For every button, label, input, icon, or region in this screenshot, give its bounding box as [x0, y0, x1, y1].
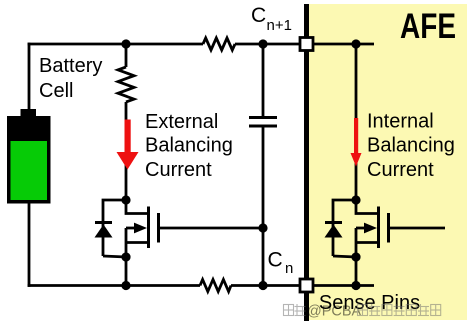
node: AFE top rail / internal branch	[351, 39, 360, 48]
wire: internal branch upper	[355, 44, 358, 200]
svg-text:n: n	[285, 260, 293, 277]
internal balancing current red arrow	[354, 118, 358, 154]
wire: internal branch to bottom rail	[355, 257, 358, 286]
node: gate wire / capacitor branch	[258, 223, 267, 232]
wire: external branch to bottom rail	[125, 257, 128, 286]
svg-text:C: C	[268, 249, 283, 272]
resistor (top, between node Cn+1 wire)	[203, 38, 235, 50]
wire: top rail right segment	[235, 43, 374, 46]
AFE yellow region	[309, 4, 467, 320]
transistor Q2 (internal balancing FET)	[356, 200, 378, 214]
transistor Q1 (external balancing FET)	[126, 200, 148, 214]
pin Cn+1 (square terminal)	[300, 38, 313, 51]
svg-text:C: C	[251, 4, 266, 27]
svg-text:Current: Current	[367, 159, 434, 181]
capacitor C	[249, 116, 277, 119]
wire: diode branch (internal)	[333, 200, 356, 256]
node: bottom rail / external branch	[121, 281, 130, 290]
svg-text:External: External	[145, 111, 218, 133]
node: internal FET source / diode bottom	[351, 252, 360, 261]
wire: left rail lower	[28, 204, 31, 287]
wire: gate of Q1 to node	[159, 227, 264, 230]
svg-text:@PCBA: @PCBA	[307, 304, 362, 320]
wire: gate of Q2	[389, 227, 446, 230]
external balancing current red arrow	[125, 120, 131, 153]
wire: diode branch (external)	[103, 200, 126, 256]
pin Cn (square terminal)	[300, 279, 313, 292]
wire: external branch upper	[125, 44, 128, 67]
node: top rail / external branch junction	[121, 39, 130, 48]
AFE boundary thick line	[304, 4, 309, 321]
svg-text:Balancing: Balancing	[367, 135, 455, 157]
node: internal FET drain / diode top	[351, 195, 360, 204]
wire: capacitor branch upper	[262, 44, 265, 116]
resistor (bottom)	[200, 280, 231, 292]
wire: bottom rail right segment	[231, 284, 374, 287]
node: bottom rail / capacitor branch	[258, 281, 267, 290]
node: top rail / capacitor branch	[258, 39, 267, 48]
wire: bottom rail left segment	[28, 284, 200, 287]
battery cell symbol	[21, 109, 37, 117]
resistor (external balancing, vertical)	[118, 67, 134, 102]
svg-text:Internal: Internal	[367, 110, 434, 132]
node: external FET source / diode bottom	[121, 252, 130, 261]
svg-text:Balancing: Balancing	[145, 135, 233, 157]
wire: left rail upper	[28, 43, 31, 109]
svg-text:Current: Current	[145, 159, 212, 181]
wire: top rail left segment	[28, 43, 203, 46]
wire: external branch below resistor	[125, 102, 128, 200]
svg-text:Cell: Cell	[39, 80, 73, 102]
watermark 知乎 @PCBA方案开发鼎盛合	[284, 304, 441, 320]
body diode (internal)	[325, 221, 342, 224]
body diode (external)	[95, 221, 112, 224]
wire: capacitor branch lower	[262, 128, 265, 286]
node: bottom rail / internal branch	[351, 281, 360, 290]
svg-text:AFE: AFE	[400, 7, 456, 46]
node: external FET drain / diode top	[121, 195, 130, 204]
svg-text:n+1: n+1	[267, 17, 292, 34]
svg-text:Battery: Battery	[39, 55, 102, 77]
